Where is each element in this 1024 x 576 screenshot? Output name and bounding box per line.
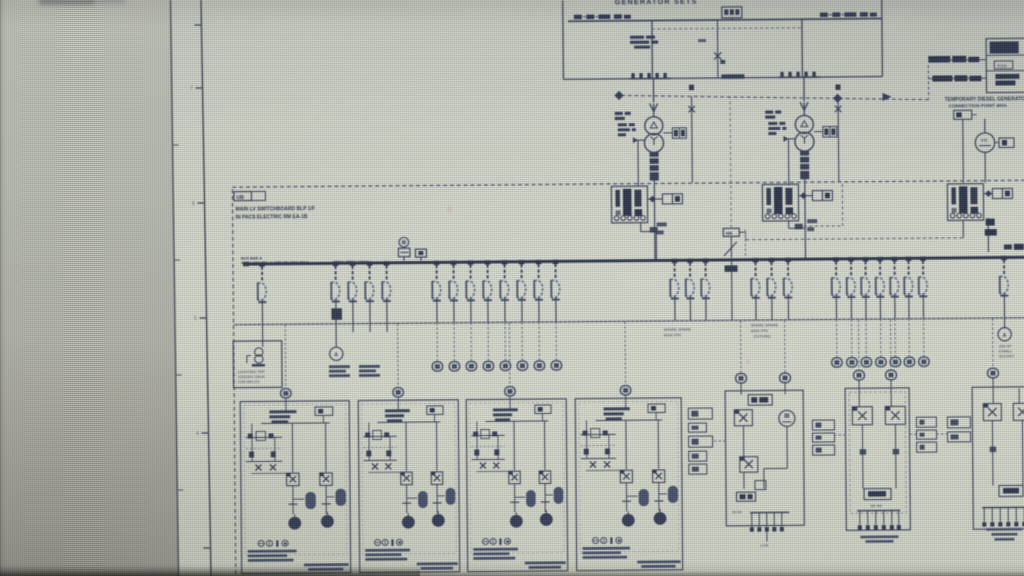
svg-text:GENERATOR SETS: GENERATOR SETS xyxy=(615,0,698,6)
svg-text:MAIN LV SWITCHBOARD BLP 1/F: MAIN LV SWITCHBOARD BLP 1/F xyxy=(236,206,316,213)
svg-text:UB: UB xyxy=(236,195,244,201)
svg-text:CONNECTION POINT 400A: CONNECTION POINT 400A xyxy=(949,103,1008,109)
svg-text:30 kA: 30 kA xyxy=(732,510,742,514)
svg-text:HB: HB xyxy=(726,231,733,236)
svg-text:SOCKET: SOCKET xyxy=(999,354,1015,358)
svg-text:3Ø 4W: 3Ø 4W xyxy=(870,504,882,508)
svg-text:LIGHTING TRF: LIGHTING TRF xyxy=(238,369,266,374)
svg-text:LCB: LCB xyxy=(760,543,768,548)
svg-text:FOR EM LTG: FOR EM LTG xyxy=(238,380,260,384)
svg-text:400A TPN: 400A TPN xyxy=(664,333,682,337)
svg-text:A: A xyxy=(1003,333,1007,339)
svg-text:SPARE SPARE: SPARE SPARE xyxy=(664,327,692,332)
svg-text:(FUTURE): (FUTURE) xyxy=(754,335,771,339)
svg-text:SPARE SPARE: SPARE SPARE xyxy=(751,322,779,327)
svg-text:IN PACS ELECTRIC RM EA-1B: IN PACS ELECTRIC RM EA-1B xyxy=(236,214,308,221)
svg-text:ESS: ESS xyxy=(997,63,1007,69)
svg-text:TEMPORARY DIESEL GENERATOR: TEMPORARY DIESEL GENERATOR xyxy=(945,96,1024,103)
svg-text:400A TPN: 400A TPN xyxy=(751,329,769,333)
svg-text:E/WALL: E/WALL xyxy=(999,349,1013,353)
svg-text:A: A xyxy=(334,352,338,358)
svg-text:kW: kW xyxy=(981,138,988,143)
svg-text:415/240V 10kVA: 415/240V 10kVA xyxy=(238,375,265,379)
svg-text:25A SP: 25A SP xyxy=(999,344,1012,348)
